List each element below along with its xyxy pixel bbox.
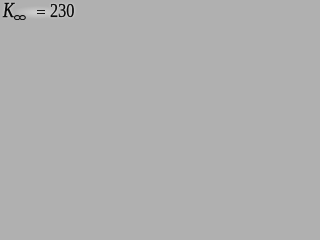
subscript infinity (14, 15, 26, 20)
value 230 (50, 1, 74, 21)
variable K (3, 1, 14, 22)
equals sign upper bar (37, 10, 45, 11)
equals sign lower bar (37, 13, 45, 14)
halo (2, 5, 74, 20)
